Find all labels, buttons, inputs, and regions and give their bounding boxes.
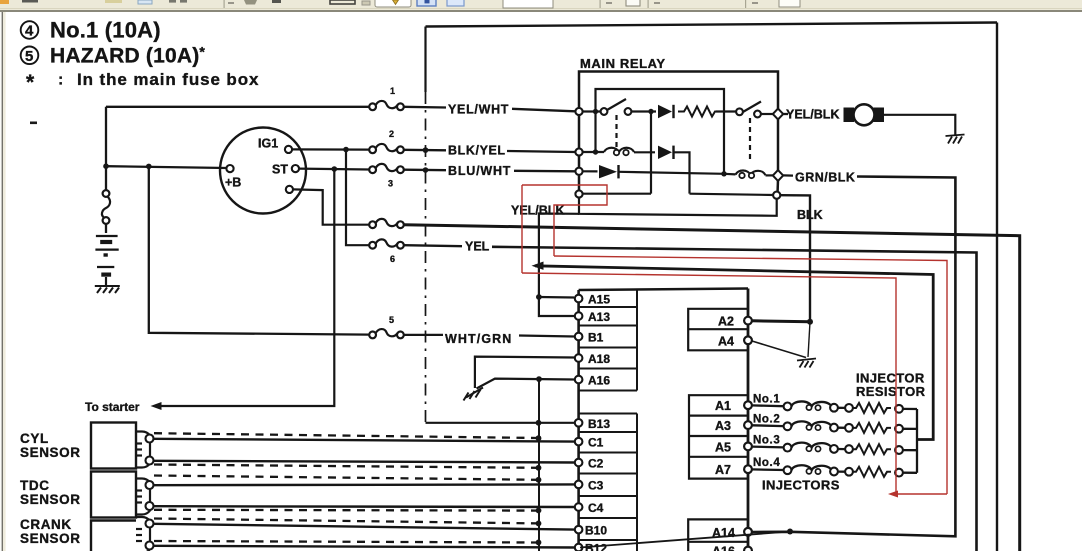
ECU cells group A xyxy=(579,290,637,391)
wire BLK relay to A2 xyxy=(781,195,811,322)
pin C3 xyxy=(575,481,583,489)
junction shield CYL top xyxy=(536,435,542,441)
junction A15 xyxy=(536,294,542,300)
junction A14 xyxy=(787,529,793,535)
svg-text:3: 3 xyxy=(388,179,393,189)
fusible link at battery xyxy=(102,190,110,224)
injector No.1 row xyxy=(752,401,917,409)
svg-text:B13: B13 xyxy=(588,417,610,431)
wire CRANK- to B12 xyxy=(154,546,575,548)
svg-text:C4: C4 xyxy=(588,501,604,515)
switch 1 linkage xyxy=(615,115,617,147)
shield C2 xyxy=(154,465,538,468)
junction A16 shield bus xyxy=(536,376,542,382)
svg-text:A16: A16 xyxy=(712,545,735,551)
switch 2 xyxy=(742,102,761,113)
arrow injector feed xyxy=(532,262,544,270)
stray mark xyxy=(30,122,37,125)
fuse 1 xyxy=(369,101,404,110)
relay terminal T1 xyxy=(575,108,582,115)
svg-text:SENSOR: SENSOR xyxy=(20,531,81,546)
junction battery top xyxy=(103,163,109,169)
wire IG1 to fuse 2 xyxy=(292,148,369,150)
outer frame right edge xyxy=(996,23,998,551)
relay box top xyxy=(579,72,778,195)
outer frame top xyxy=(426,23,998,27)
junction chain x BLU/WHT xyxy=(423,167,429,173)
svg-text:A5: A5 xyxy=(715,440,731,454)
junction shield CYL bottom xyxy=(536,465,542,471)
svg-text:2: 2 xyxy=(389,129,394,139)
red wire lower across xyxy=(522,273,896,494)
vertical row1 to row4 xyxy=(650,112,652,194)
relay diamond YEL/BLK xyxy=(773,109,783,120)
chain line left frame to B13 xyxy=(424,27,426,93)
junction relay row1 xyxy=(648,109,653,114)
junction B13 bus xyxy=(536,420,542,426)
svg-text:B1: B1 xyxy=(588,331,604,345)
header note: fuse No.4 xyxy=(21,18,161,43)
ECU connector top edge xyxy=(579,289,748,291)
svg-text:A13: A13 xyxy=(588,310,610,324)
svg-text:No.1 (10A): No.1 (10A) xyxy=(50,18,161,43)
relay diamond GRN/BLK xyxy=(773,170,783,181)
junction relay row1 left xyxy=(593,109,598,114)
svg-text:CRANK: CRANK xyxy=(20,517,72,532)
ground battery xyxy=(95,286,120,293)
ground sensor shield xyxy=(464,388,484,401)
cells A2 A4 xyxy=(688,309,748,351)
svg-text:CYL: CYL xyxy=(20,431,49,446)
TDC connector xyxy=(136,479,150,515)
junction relay row3 xyxy=(721,171,726,176)
svg-text:C3: C3 xyxy=(588,478,604,492)
wire CYL+ to C1 xyxy=(154,439,575,442)
shield C4 xyxy=(154,509,538,512)
CRANK connector xyxy=(136,517,150,551)
pin C4 xyxy=(575,503,583,511)
svg-text:*: * xyxy=(26,71,35,94)
relay box right side xyxy=(777,118,780,172)
ECU right column edge xyxy=(747,289,750,551)
diode D1 row1 xyxy=(658,105,674,118)
pin A15 xyxy=(575,295,583,303)
svg-text:A16: A16 xyxy=(588,374,610,388)
fuse 6 (WHT/GRN) xyxy=(369,329,404,338)
svg-text:B10: B10 xyxy=(585,524,607,538)
svg-text:YEL: YEL xyxy=(465,240,490,254)
wire ST tap down to starter xyxy=(160,169,334,406)
injector No.2 row xyxy=(752,421,917,429)
wire IG1 tap down to fuse 5 xyxy=(346,150,369,246)
ignition switch circle xyxy=(220,128,306,214)
svg-text:INJECTORS: INJECTORS xyxy=(762,478,840,493)
arrow to starter xyxy=(151,402,162,410)
switch 2 linkage xyxy=(749,118,751,163)
injector No.3 row xyxy=(752,443,917,451)
header note: fuse No.5 xyxy=(21,44,206,68)
pin A4 xyxy=(744,336,752,344)
wire A4 to ground xyxy=(752,341,806,358)
diode D3 row3 xyxy=(599,165,619,178)
svg-text:4: 4 xyxy=(25,23,34,40)
pin B1 xyxy=(575,333,583,341)
injector resistor bus xyxy=(916,409,918,473)
coil 2 xyxy=(736,171,766,179)
svg-text:C1: C1 xyxy=(588,436,604,450)
wire relay row1 xyxy=(583,110,601,112)
svg-text:No.4: No.4 xyxy=(753,457,780,469)
pin B10 xyxy=(575,526,583,534)
terminal ST xyxy=(292,165,299,172)
terminal +B xyxy=(226,165,233,172)
svg-text:TDC: TDC xyxy=(20,478,50,493)
relay terminal T2 xyxy=(575,148,582,155)
junction shield CRANK top xyxy=(536,521,542,527)
node battery top corner xyxy=(105,107,107,190)
junction shield TDC bottom xyxy=(536,508,542,514)
svg-text:A2: A2 xyxy=(718,315,734,329)
svg-text:1: 1 xyxy=(390,86,395,96)
wire to A13 xyxy=(539,297,574,316)
svg-text:A4: A4 xyxy=(718,334,734,348)
wire fuse6 to B1 xyxy=(404,334,443,336)
svg-text:HAZARD (10A)*: HAZARD (10A)* xyxy=(50,44,205,68)
relay inner top wire xyxy=(596,89,725,174)
pin A7 xyxy=(744,465,752,473)
pin A18 xyxy=(575,354,583,362)
red arrow xyxy=(888,491,898,498)
wire relay row2 coil1 xyxy=(583,151,605,153)
relay terminal T5 xyxy=(773,192,780,199)
red wire middle across xyxy=(554,256,947,494)
svg-text:No.2: No.2 xyxy=(753,414,780,426)
svg-text:+B: +B xyxy=(225,176,241,190)
junction chain x BLK/YEL xyxy=(423,147,429,153)
junction ST tap xyxy=(332,166,338,172)
svg-text:A1: A1 xyxy=(715,399,731,413)
resistor relay row1 xyxy=(678,107,718,117)
wire fuse3 to relay T3 xyxy=(404,169,446,172)
svg-text:A18: A18 xyxy=(588,352,610,366)
junction shield TDC top xyxy=(536,477,542,483)
shield C3 xyxy=(154,476,538,480)
wire TDC+ to C3 xyxy=(154,483,575,486)
svg-text:RESISTOR: RESISTOR xyxy=(856,384,926,399)
wire battery to +B xyxy=(106,166,227,168)
fuse 5 (YEL) xyxy=(369,239,404,248)
red wire vertical left xyxy=(521,185,523,273)
svg-text:To starter: To starter xyxy=(85,400,140,414)
relay terminal T3 xyxy=(575,168,582,175)
cells A1 A3 A5 A7 xyxy=(689,395,748,478)
svg-text:No.1: No.1 xyxy=(753,394,780,406)
svg-text:A3: A3 xyxy=(715,419,731,433)
red wire bottom xyxy=(896,493,947,495)
wire BLK to ground thin xyxy=(808,322,810,357)
pin A14 xyxy=(744,528,752,536)
fuel pump motor xyxy=(844,104,885,125)
wire ST to fuse 3 xyxy=(299,168,369,171)
viewer page left border xyxy=(0,12,6,551)
wire B13 horizontal xyxy=(426,422,575,424)
injector No.4 row xyxy=(752,465,917,473)
wire CRANK+ to B10 xyxy=(154,524,575,530)
battery B1 xyxy=(95,236,118,286)
wire YEL/WHT feed top-left xyxy=(106,106,369,108)
wire A14 junction to B12 xyxy=(580,532,790,548)
wire A18 to ground xyxy=(475,357,575,388)
pin A2 xyxy=(744,317,752,325)
wire diamond to motor xyxy=(784,113,789,115)
battery feed xyxy=(105,223,107,233)
pin A16 bottom partial xyxy=(744,547,752,551)
CYL connector xyxy=(136,432,150,468)
svg-text:C2: C2 xyxy=(588,457,604,471)
wire relay row4 xyxy=(583,193,652,195)
wire ACC to fuse 4 xyxy=(293,189,369,224)
svg-text:6: 6 xyxy=(390,254,395,264)
terminal ACC xyxy=(286,186,293,193)
switch 1 xyxy=(607,99,626,110)
toolbar strip (cut off app toolbar) xyxy=(0,0,1082,12)
wire A16 to ground xyxy=(477,379,575,389)
shield B10 xyxy=(154,519,538,524)
svg-text:ST: ST xyxy=(272,163,288,177)
pin A16 xyxy=(575,376,583,384)
wire fuse1 to relay T1 xyxy=(404,106,446,109)
pin A13 xyxy=(575,312,583,320)
fuse 2 xyxy=(369,144,404,153)
terminal IG1 xyxy=(285,146,292,153)
wire A2 xyxy=(752,321,810,322)
ground fuel pump xyxy=(946,135,965,144)
cells A14 xyxy=(688,519,748,551)
svg-text:YEL/BLK: YEL/BLK xyxy=(786,108,839,122)
wire GRN/BLK xyxy=(784,174,794,176)
red wire top xyxy=(522,185,607,256)
svg-text::: : xyxy=(58,72,63,89)
ECU cells group B xyxy=(579,414,637,551)
shield ground bus vertical xyxy=(538,379,540,551)
junction relay coil1 xyxy=(593,149,598,154)
fuse 3 xyxy=(369,164,404,173)
pin A3 xyxy=(744,421,752,429)
ECU connector left column edge xyxy=(577,290,580,551)
wire TDC- to C4 xyxy=(154,505,575,508)
junction WHT/GRN tap xyxy=(146,164,152,170)
svg-text:WHT/GRN: WHT/GRN xyxy=(445,332,512,346)
pin C1 xyxy=(575,438,583,446)
svg-text:MAIN RELAY: MAIN RELAY xyxy=(580,56,666,71)
pin C2 xyxy=(575,459,583,467)
svg-text:In the main fuse box: In the main fuse box xyxy=(77,70,259,89)
svg-text:A15: A15 xyxy=(588,293,610,307)
wire YEL/BLK exit to A15 xyxy=(539,214,579,298)
svg-text:5: 5 xyxy=(389,315,394,325)
svg-text:SENSOR: SENSOR xyxy=(20,445,81,460)
svg-text:BLU/WHT: BLU/WHT xyxy=(448,164,511,178)
pin B13 xyxy=(575,419,583,427)
svg-text:IG1: IG1 xyxy=(258,137,278,151)
shield B12 xyxy=(154,541,538,543)
wire relay row3 xyxy=(583,170,598,172)
svg-text:5: 5 xyxy=(25,48,33,65)
wire A15 from relay xyxy=(539,296,574,299)
long wire injector feed with arrow xyxy=(535,266,933,440)
long wire YEL row xyxy=(404,245,462,246)
junction IG1 tap xyxy=(343,147,349,153)
svg-text:No.3: No.3 xyxy=(753,435,780,447)
red trace loop xyxy=(522,185,947,494)
ground A4 xyxy=(797,359,816,368)
svg-text:SENSOR: SENSOR xyxy=(20,492,81,507)
diode D2 row2 xyxy=(658,146,674,159)
pin B12 xyxy=(575,544,583,551)
shield C1 xyxy=(154,433,538,438)
wire WHT/GRN drop xyxy=(149,166,370,334)
svg-text:BLK/YEL: BLK/YEL xyxy=(448,144,506,158)
junction shield CRANK bottom xyxy=(536,540,542,546)
wire CYL- to C2 xyxy=(154,461,575,463)
junction A2 BLK xyxy=(807,319,813,325)
pin A5 xyxy=(744,443,752,451)
wire fuse2 to relay T2 xyxy=(404,149,446,152)
wire motor to ground xyxy=(884,115,955,135)
pin A1 xyxy=(744,401,752,409)
fuse 4 xyxy=(369,219,404,228)
relay switch1 contacts xyxy=(601,108,608,115)
coil 1 xyxy=(604,148,634,156)
long wire fuse4 row xyxy=(404,225,1020,551)
svg-text:A7: A7 xyxy=(715,463,731,477)
relay terminal T4 xyxy=(575,190,582,197)
relay bottom U wire xyxy=(579,198,777,216)
svg-text:YEL/WHT: YEL/WHT xyxy=(448,103,509,117)
svg-text:GRN/BLK: GRN/BLK xyxy=(795,171,855,185)
relay switch2 contacts xyxy=(736,108,743,115)
